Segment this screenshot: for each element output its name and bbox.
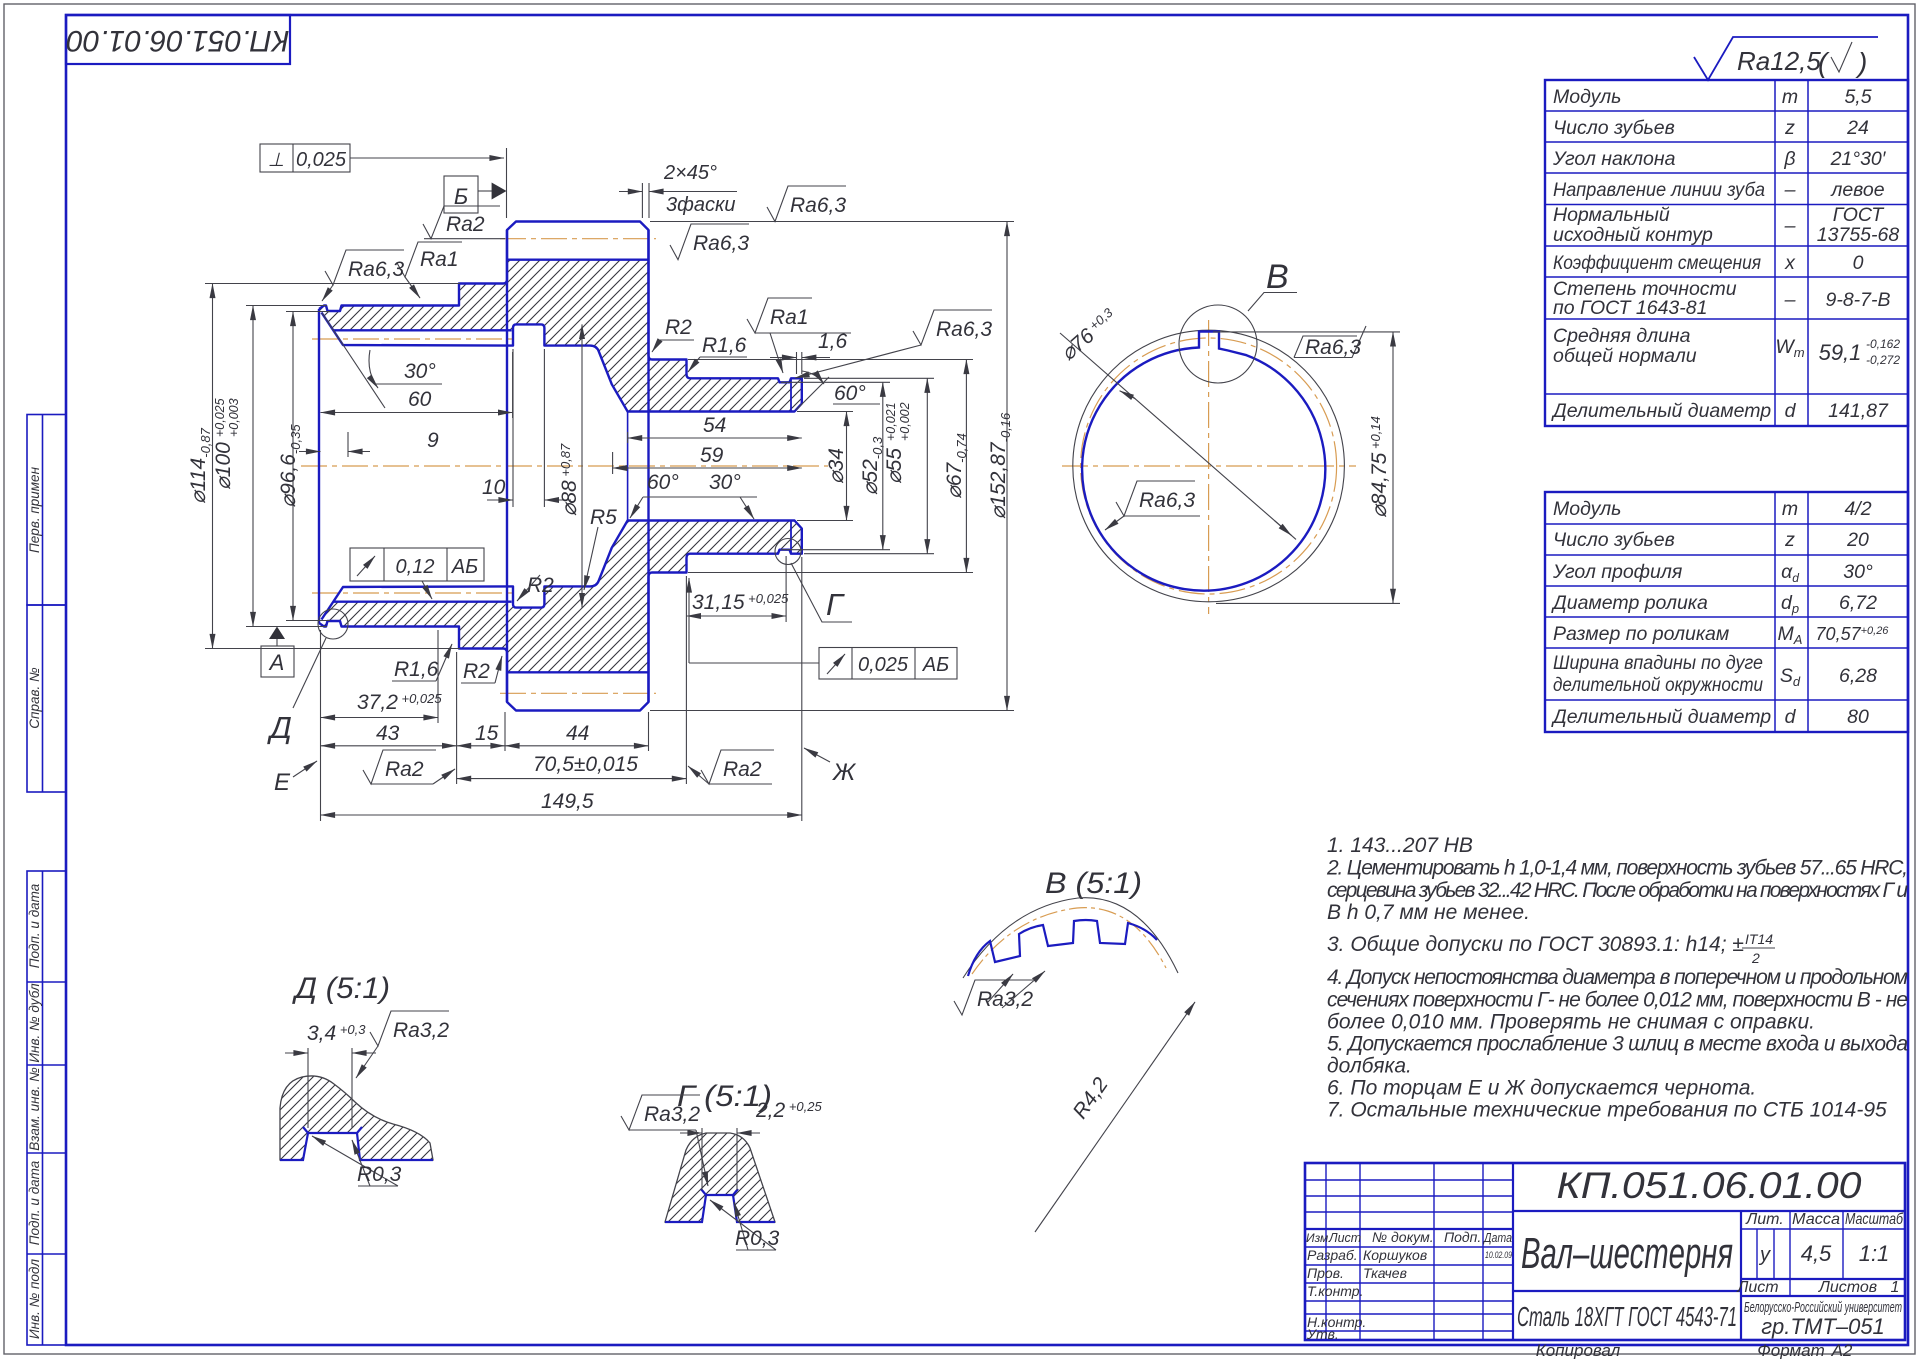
svg-text:Справ. №: Справ. №	[27, 667, 42, 729]
svg-text:7. Остальные технические треб: 7. Остальные технические требования по С…	[1327, 1099, 1887, 1122]
svg-text:0,025: 0,025	[858, 654, 909, 676]
svg-text:21°30′: 21°30′	[1830, 148, 1887, 170]
svg-text:z: z	[1784, 529, 1795, 551]
svg-text:№ докум.: № докум.	[1372, 1229, 1434, 1245]
svg-text:Лит.: Лит.	[1745, 1211, 1783, 1228]
svg-text:2. Цементировать h 1,0-1,4 мм,: 2. Цементировать h 1,0-1,4 мм, поверхнос…	[1326, 857, 1908, 880]
svg-text:Инв. № подл: Инв. № подл	[27, 1259, 42, 1339]
svg-text:Лист: Лист	[1736, 1279, 1778, 1296]
svg-text:6,28: 6,28	[1839, 665, 1877, 687]
svg-text:Пров.: Пров.	[1307, 1265, 1344, 1281]
svg-text:общей нормали: общей нормали	[1553, 345, 1697, 367]
svg-text:А2: А2	[1831, 1341, 1853, 1359]
svg-text:Ra12,5: Ra12,5	[1737, 46, 1821, 76]
svg-text:Число зубьев: Число зубьев	[1553, 529, 1675, 551]
svg-text:Д: Д	[267, 710, 292, 745]
svg-text:Листов: Листов	[1818, 1279, 1877, 1296]
svg-text:Д (5:1): Д (5:1)	[292, 972, 390, 1005]
svg-text:А: А	[268, 650, 285, 675]
svg-text:Размер по роликам: Размер по роликам	[1553, 623, 1729, 645]
svg-text:АБ: АБ	[922, 654, 949, 676]
svg-text:d: d	[1785, 706, 1797, 728]
svg-text:1,6: 1,6	[818, 330, 848, 353]
svg-text:z: z	[1784, 117, 1795, 139]
svg-text:Подп. и дата: Подп. и дата	[27, 883, 42, 968]
svg-text:КП.051.06.01.00: КП.051.06.01.00	[1557, 1165, 1862, 1206]
svg-text:43: 43	[376, 722, 400, 745]
svg-text:Ra3,2: Ra3,2	[644, 1103, 700, 1126]
svg-text:⌀34: ⌀34	[825, 448, 848, 484]
svg-text:Сталь 18ХГТ ГОСТ 4543-71: Сталь 18ХГТ ГОСТ 4543-71	[1517, 1301, 1737, 1332]
svg-text:Ж: Ж	[832, 759, 857, 786]
svg-text:Вал–шестерня: Вал–шестерня	[1521, 1229, 1733, 1278]
svg-text:Ra1: Ra1	[770, 306, 809, 329]
svg-text:x: x	[1784, 252, 1796, 274]
svg-text:24: 24	[1846, 117, 1869, 139]
svg-text:6. По торцам Е и Ж допускаетс: 6. По торцам Е и Ж допускается чернота.	[1327, 1077, 1756, 1100]
svg-text:-0,162: -0,162	[1866, 337, 1900, 351]
svg-text:Б: Б	[454, 184, 468, 209]
svg-text:R0,3: R0,3	[735, 1227, 780, 1250]
svg-text:В h 0,7 мм не менее.: В h 0,7 мм не менее.	[1327, 901, 1530, 924]
svg-text:Угол профиля: Угол профиля	[1552, 561, 1683, 583]
svg-text:Подп. и дата: Подп. и дата	[27, 1160, 42, 1245]
svg-text:-0,272: -0,272	[1866, 353, 1900, 367]
svg-text:60°: 60°	[834, 382, 866, 405]
svg-text:9-8-7-В: 9-8-7-В	[1825, 289, 1890, 311]
svg-text:Ra6,3: Ra6,3	[693, 232, 749, 255]
svg-text:Делительный диаметр: Делительный диаметр	[1551, 400, 1771, 422]
svg-text:Масса: Масса	[1792, 1211, 1840, 1228]
svg-text:Ra6,3: Ra6,3	[790, 194, 846, 217]
svg-text:Утв.: Утв.	[1306, 1326, 1339, 1342]
svg-text:Инв. № дубл: Инв. № дубл	[27, 983, 42, 1063]
svg-text:долбяка.: долбяка.	[1327, 1055, 1412, 1078]
svg-text:Лист: Лист	[1328, 1231, 1361, 1245]
svg-text:–: –	[1784, 289, 1796, 311]
svg-text:30°: 30°	[709, 471, 741, 494]
svg-text:Т.контр.: Т.контр.	[1307, 1283, 1363, 1299]
svg-text:2×45°: 2×45°	[663, 162, 717, 184]
svg-text:Ra2: Ra2	[446, 213, 485, 236]
svg-text:β: β	[1783, 148, 1795, 170]
svg-text:Е: Е	[274, 769, 291, 796]
svg-text:0: 0	[1853, 252, 1864, 274]
svg-text:m: m	[1782, 86, 1798, 108]
svg-text:Диаметр ролика: Диаметр ролика	[1551, 592, 1708, 614]
svg-text:по ГОСТ 1643-81: по ГОСТ 1643-81	[1553, 297, 1707, 319]
svg-text:1. 143...207 НВ: 1. 143...207 НВ	[1327, 834, 1473, 857]
svg-text:левое: левое	[1830, 179, 1884, 201]
svg-text:–: –	[1784, 215, 1796, 237]
svg-text:В (5:1): В (5:1)	[1045, 867, 1142, 900]
svg-text:более 0,010 мм. Проверять не с: более 0,010 мм. Проверять не снимая с оп…	[1327, 1011, 1815, 1034]
svg-text:13755-68: 13755-68	[1817, 224, 1900, 246]
svg-text:R1,6: R1,6	[394, 658, 439, 681]
svg-text:0,12: 0,12	[396, 556, 435, 578]
svg-text:+0,021: +0,021	[884, 402, 898, 441]
svg-text:Угол наклона: Угол наклона	[1552, 148, 1676, 170]
svg-text:5,5: 5,5	[1844, 86, 1871, 108]
svg-text:70,5±0,015: 70,5±0,015	[533, 753, 638, 776]
svg-text:9: 9	[427, 429, 439, 452]
svg-text:Дата: Дата	[1482, 1231, 1512, 1245]
svg-text:⌀55: ⌀55	[883, 448, 906, 484]
svg-text:5. Допускается прослабление 3: 5. Допускается прослабление 3 шлиц в мес…	[1327, 1033, 1908, 1056]
svg-text:Ra2: Ra2	[723, 758, 762, 781]
svg-text:R0,3: R0,3	[357, 1163, 402, 1186]
svg-text:В: В	[1266, 258, 1289, 296]
svg-text:Ra3,2: Ra3,2	[977, 988, 1033, 1011]
svg-text:m: m	[1782, 498, 1798, 520]
svg-text:15: 15	[475, 722, 499, 745]
svg-text:30°: 30°	[1843, 561, 1873, 583]
svg-text:+0,025: +0,025	[213, 398, 227, 437]
svg-text:Г: Г	[826, 587, 845, 622]
svg-text:Подп.: Подп.	[1444, 1229, 1481, 1245]
svg-text:⊥: ⊥	[268, 150, 285, 171]
svg-text:149,5: 149,5	[541, 790, 594, 813]
svg-text:IT14: IT14	[1745, 931, 1773, 947]
svg-text:исходный контур: исходный контур	[1553, 224, 1713, 246]
svg-text:2: 2	[1751, 950, 1760, 966]
svg-text:серцевина зубьев 32...42 HRC.: серцевина зубьев 32...42 HRC. После обра…	[1327, 879, 1908, 902]
svg-text:Нормальный: Нормальный	[1553, 204, 1670, 226]
svg-text:ГОСТ: ГОСТ	[1833, 204, 1886, 226]
svg-text:6,72: 6,72	[1839, 592, 1877, 614]
svg-text:4/2: 4/2	[1844, 498, 1871, 520]
svg-text:20: 20	[1846, 529, 1869, 551]
svg-text:59: 59	[700, 444, 724, 467]
svg-text:+0,003: +0,003	[227, 398, 241, 437]
svg-text:4. Допуск непостоянства диамет: 4. Допуск непостоянства диаметра в попер…	[1327, 966, 1908, 989]
svg-text:1:1: 1:1	[1859, 1241, 1890, 1266]
svg-text:141,87: 141,87	[1828, 400, 1889, 422]
svg-text:59,1: 59,1	[1819, 340, 1862, 365]
svg-text:Формат: Формат	[1757, 1341, 1825, 1359]
svg-text:Ширина впадины по дуге: Ширина впадины по дуге	[1553, 652, 1763, 674]
svg-text:Копировал: Копировал	[1536, 1341, 1621, 1359]
svg-text:+0,002: +0,002	[898, 402, 912, 441]
svg-text:делительной окружности: делительной окружности	[1553, 674, 1763, 696]
svg-text:сечениях поверхности Г- не бол: сечениях поверхности Г- не более 0,012 м…	[1327, 989, 1908, 1012]
svg-text:Перв. примен: Перв. примен	[27, 466, 42, 553]
svg-text:R2: R2	[665, 316, 692, 339]
svg-text:Изм.: Изм.	[1306, 1231, 1332, 1245]
svg-text:R1,6: R1,6	[702, 334, 747, 357]
svg-text:60: 60	[408, 388, 432, 411]
svg-text:60°: 60°	[647, 471, 679, 494]
svg-text:Взам. инв. №: Взам. инв. №	[27, 1067, 42, 1151]
svg-text:Модуль: Модуль	[1553, 498, 1621, 520]
svg-text:0,025: 0,025	[296, 149, 347, 171]
svg-text:у: у	[1758, 1244, 1771, 1266]
svg-text:30°: 30°	[404, 360, 436, 383]
svg-text:Делительный диаметр: Делительный диаметр	[1551, 706, 1771, 728]
svg-text:Ra6,3: Ra6,3	[1139, 489, 1195, 512]
svg-text:Ra6,3: Ra6,3	[348, 258, 404, 281]
svg-text:Ra1: Ra1	[420, 248, 459, 271]
svg-text:АБ: АБ	[451, 556, 478, 578]
svg-text:Масштаб: Масштаб	[1845, 1211, 1904, 1228]
svg-text:10.02.09: 10.02.09	[1485, 1250, 1513, 1261]
svg-text:80: 80	[1847, 706, 1869, 728]
svg-text:Ra3,2: Ra3,2	[393, 1019, 449, 1042]
svg-text:1: 1	[1891, 1279, 1900, 1296]
svg-text:Число зубьев: Число зубьев	[1553, 117, 1675, 139]
svg-text:Средняя длина: Средняя длина	[1553, 325, 1691, 347]
svg-text:Направление линии зуба: Направление линии зуба	[1553, 179, 1765, 201]
svg-text:3. Общие допуски по ГОСТ 3089: 3. Общие допуски по ГОСТ 30893.1: h14; ±	[1327, 933, 1744, 956]
svg-text:Разраб.: Разраб.	[1307, 1247, 1358, 1263]
svg-text:Ra6,3: Ra6,3	[1305, 336, 1361, 359]
svg-text:⌀100: ⌀100	[212, 442, 235, 490]
svg-text:d: d	[1785, 400, 1797, 422]
svg-text:44: 44	[566, 722, 589, 745]
svg-text:Коэффициент смещения: Коэффициент смещения	[1553, 252, 1762, 274]
svg-text:Ra6,3: Ra6,3	[936, 318, 992, 341]
svg-text:Коршуков: Коршуков	[1363, 1247, 1427, 1263]
svg-text:КП.051.06.01.00: КП.051.06.01.00	[66, 24, 289, 57]
svg-text:R5: R5	[590, 506, 617, 529]
svg-text:3фаски: 3фаски	[666, 194, 736, 216]
svg-text:54: 54	[703, 414, 726, 437]
svg-text:Ткачев: Ткачев	[1363, 1265, 1407, 1281]
svg-text:10: 10	[482, 476, 506, 499]
svg-text:гр.ТМТ–051: гр.ТМТ–051	[1761, 1314, 1885, 1339]
svg-text:–: –	[1784, 179, 1796, 201]
svg-text:R2: R2	[463, 660, 490, 683]
svg-text:4,5: 4,5	[1801, 1241, 1832, 1266]
svg-text:Модуль: Модуль	[1553, 86, 1621, 108]
svg-text:Ra2: Ra2	[385, 758, 424, 781]
